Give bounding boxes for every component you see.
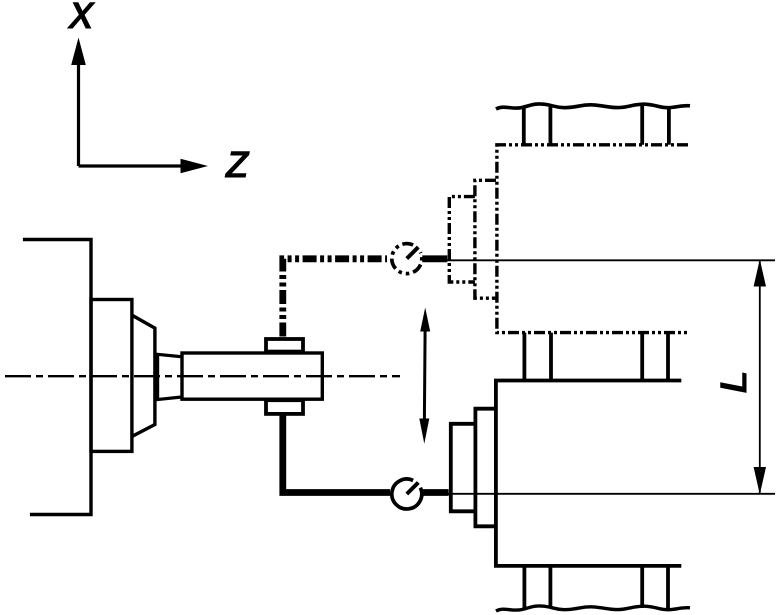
reference line upper: [424, 259, 775, 261]
tool path phantom upper: [283, 259, 387, 337]
workpiece bar: [182, 353, 322, 399]
turret upper holder block 1 (phantom): [475, 180, 496, 298]
turret upper slots: [524, 106, 669, 145]
chuck body: [91, 300, 132, 452]
turret lower break line: [496, 606, 690, 611]
turret upper break line: [496, 104, 690, 109]
svg-text:X: X: [67, 0, 97, 38]
turret upper outline (phantom): [497, 145, 688, 333]
svg-text:L: L: [714, 370, 756, 393]
tool holder block upper: [266, 339, 303, 352]
svg-text:Z: Z: [225, 145, 251, 187]
tool point symbol lower: [392, 479, 422, 509]
workpiece cone: [156, 354, 181, 400]
axis X arrow: [71, 38, 86, 167]
tool holder block lower: [266, 400, 303, 414]
connector upper: [422, 255, 447, 262]
dimension L arrow down: [754, 467, 766, 495]
reference line lower: [424, 493, 775, 495]
stroke movement double arrow: [419, 308, 430, 444]
turret lower holder block 2: [451, 424, 476, 512]
turret upper holder block 2 (phantom): [449, 197, 475, 282]
headstock outline: [23, 240, 91, 515]
dimension L arrow up: [754, 259, 766, 286]
axis Z arrow: [79, 159, 209, 174]
turret lower slots upper row: [524, 333, 668, 381]
dimension L line: [759, 261, 761, 493]
turret lower outline: [496, 381, 681, 566]
tool point symbol upper (phantom): [392, 244, 422, 274]
connector lower: [422, 489, 448, 496]
chuck jaw: [132, 315, 155, 436]
centerline: [5, 375, 400, 377]
turret lower slots bottom row: [524, 566, 668, 608]
turret lower holder block 1: [475, 409, 496, 527]
tool path solid lower: [283, 414, 390, 493]
